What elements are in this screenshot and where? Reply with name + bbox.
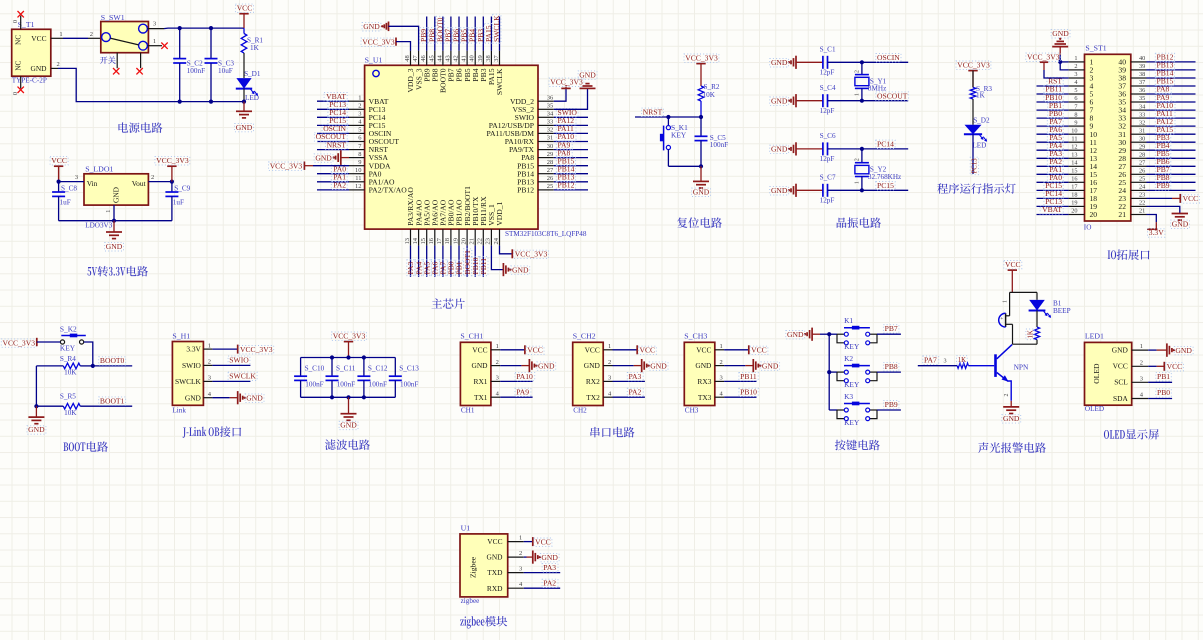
LED S_D1 <box>243 53 245 78</box>
net label PB3 <box>1147 141 1196 143</box>
ST1 pin 8 <box>1069 117 1085 119</box>
U1 pin 13 (PA3/RX/AO) <box>410 229 412 246</box>
svg-text:TYPE-C-2P: TYPE-C-2P <box>12 77 47 85</box>
svg-text:GND: GND <box>771 186 788 195</box>
svg-text:1: 1 <box>1074 55 1077 62</box>
svg-text:9: 9 <box>1074 119 1077 126</box>
svg-text:36: 36 <box>1139 87 1145 94</box>
net label PB4 <box>1147 149 1196 151</box>
svg-text:48: 48 <box>404 55 411 62</box>
U1 pin 16 (PA6/AO) <box>434 229 436 246</box>
svg-text:44: 44 <box>436 55 443 62</box>
U1 pin 30 (PA9/TX) <box>538 149 554 151</box>
svg-text:PA7: PA7 <box>924 355 937 364</box>
svg-text:1K: 1K <box>976 91 986 99</box>
svg-text:1: 1 <box>519 535 522 542</box>
SW1 bottom stub pins <box>116 53 118 68</box>
U1 pin 29 (PA8) <box>538 157 554 159</box>
svg-text:2: 2 <box>1074 63 1077 70</box>
svg-text:32: 32 <box>1139 119 1145 126</box>
junction <box>112 219 116 223</box>
net label BOOT0 / wire <box>80 365 93 367</box>
svg-text:S_LDO1: S_LDO1 <box>85 164 113 173</box>
power GND at VSSA pin 8 <box>341 157 349 159</box>
wire VCC node <box>1010 291 1037 293</box>
net label PB5 <box>1147 157 1196 159</box>
svg-text:3: 3 <box>1074 71 1077 78</box>
svg-text:PA2: PA2 <box>333 181 346 190</box>
net label PA0 <box>317 173 349 175</box>
junction <box>827 370 831 374</box>
svg-text:SWCLK: SWCLK <box>492 15 501 42</box>
svg-text:VCC: VCC <box>237 4 253 13</box>
svg-text:GND: GND <box>363 22 380 31</box>
svg-text:18: 18 <box>444 238 451 245</box>
net label PA5 <box>1037 141 1069 143</box>
svg-text:12pF: 12pF <box>820 197 835 205</box>
wire bottom rail <box>301 396 396 398</box>
svg-text:0: 0 <box>12 20 19 23</box>
svg-text:PB10: PB10 <box>740 388 757 397</box>
svg-text:S_H1: S_H1 <box>172 332 190 341</box>
U1 pin 37 (SWCLK) <box>499 51 501 66</box>
U1 pin 15 (PA5/AO) <box>426 229 428 246</box>
pushbutton K1 (KEY) <box>829 333 837 335</box>
power GND <box>348 397 350 413</box>
T1 pin 2 GND wire <box>51 67 58 69</box>
U1 pin 9 (VDDA) <box>349 165 365 167</box>
net label PA6 <box>434 246 436 277</box>
svg-text:VCC: VCC <box>1005 260 1021 269</box>
wire key to BOOT0 <box>84 342 93 366</box>
svg-text:37: 37 <box>493 55 500 62</box>
svg-text:S_C11: S_C11 <box>336 364 356 372</box>
LED1 pin 1 (GND) <box>1132 349 1149 351</box>
svg-text:BOOT0: BOOT0 <box>100 356 125 365</box>
svg-text:S_R5: S_R5 <box>60 392 76 400</box>
power GND at LED1 pin 1 <box>1148 349 1156 351</box>
svg-text:S_R4: S_R4 <box>60 355 76 363</box>
svg-text:43: 43 <box>444 55 451 62</box>
junction <box>827 332 831 336</box>
power GND at VSS_3 pin 47 <box>362 23 381 31</box>
title 晶振电路 <box>837 218 847 228</box>
U1 pin 47 (VSS_3) <box>418 51 420 66</box>
net label PC15 <box>1037 189 1069 191</box>
svg-text:VCC: VCC <box>31 34 46 43</box>
svg-text:LED: LED <box>245 94 259 102</box>
ST1 pin 9 <box>1069 125 1085 127</box>
connector S_CH2 <box>573 342 604 405</box>
svg-text:VCC: VCC <box>1113 362 1128 371</box>
svg-text:32.768KHz: 32.768KHz <box>868 173 901 181</box>
power VCC at CH1 pin 1 <box>500 349 525 351</box>
svg-text:VCC_3V3: VCC_3V3 <box>156 156 189 165</box>
svg-text:VCC: VCC <box>1183 194 1199 203</box>
svg-text:1: 1 <box>105 210 112 213</box>
svg-text:PB8: PB8 <box>885 362 898 371</box>
U1 pin 1 (VBAT) <box>349 100 365 102</box>
svg-text:S_C9: S_C9 <box>174 185 190 193</box>
net label PA15 <box>1147 133 1196 135</box>
net label PB11 <box>1037 93 1069 95</box>
svg-text:35: 35 <box>547 103 554 110</box>
net label PB7 / wire <box>877 333 901 335</box>
svg-text:GND: GND <box>695 361 712 370</box>
net label PB8 <box>1147 181 1196 183</box>
svg-text:PA10: PA10 <box>516 372 533 381</box>
svg-text:KEY: KEY <box>844 380 860 389</box>
svg-text:GND: GND <box>246 393 263 402</box>
svg-text:PA3: PA3 <box>543 563 556 572</box>
U1 pin 38 (PA15) <box>490 51 492 66</box>
U1 pin 40 (PB4) <box>474 51 476 66</box>
U1(zigbee) pin 3 (TXD) <box>508 572 524 574</box>
title 按键电路 <box>835 440 846 451</box>
svg-text:34: 34 <box>547 111 554 118</box>
svg-text:37: 37 <box>1139 79 1145 86</box>
junction <box>178 100 182 104</box>
svg-text:6: 6 <box>1074 95 1077 102</box>
title 复位电路 <box>677 217 687 228</box>
svg-text:28: 28 <box>1139 152 1145 159</box>
svg-text:PB12: PB12 <box>558 181 575 190</box>
net label BOOT1 <box>466 246 468 277</box>
svg-text:BOOT1: BOOT1 <box>100 396 125 405</box>
svg-text:4: 4 <box>608 390 612 397</box>
svg-text:2: 2 <box>1004 394 1010 397</box>
junction <box>1058 60 1062 64</box>
T1 pin 0 (top) <box>20 16 22 30</box>
power 3.3V at ST1 pin 21 <box>1147 215 1157 223</box>
net label VBAT <box>1037 214 1069 216</box>
connector S_T1 (TYPE-C-2P) <box>12 29 51 76</box>
svg-text:17: 17 <box>436 237 443 244</box>
title 串口电路 <box>590 427 599 438</box>
no-connect X <box>161 43 167 49</box>
net label PA0 <box>1037 181 1069 183</box>
U1 pin 26 (PB13) <box>538 181 554 183</box>
svg-text:S_C13: S_C13 <box>399 364 419 372</box>
svg-text:8MHz: 8MHz <box>868 85 886 93</box>
ST1 pin 24 <box>1131 189 1147 191</box>
svg-text:32: 32 <box>547 127 554 134</box>
capacitor S_C9 <box>171 182 173 192</box>
svg-text:VCC: VCC <box>751 346 767 355</box>
net label RST <box>1037 85 1069 87</box>
svg-text:4: 4 <box>1140 392 1144 399</box>
svg-text:PA2: PA2 <box>543 579 556 588</box>
ST1 pin 16 <box>1069 181 1085 183</box>
svg-text:PB11: PB11 <box>740 372 757 381</box>
svg-text:IO: IO <box>1084 223 1092 231</box>
net label PC15 <box>317 124 349 126</box>
net label PA3 <box>1037 157 1069 159</box>
svg-text:VCC_3V3: VCC_3V3 <box>550 78 583 87</box>
capacitor S_C7 12pF <box>796 189 823 191</box>
svg-text:LED1: LED1 <box>1085 332 1104 341</box>
svg-text:GND: GND <box>538 361 555 370</box>
junction <box>209 100 213 104</box>
svg-text:10: 10 <box>1071 127 1077 134</box>
svg-text:S_ST1: S_ST1 <box>1085 44 1106 53</box>
power GND for S_C7 <box>795 184 797 197</box>
svg-text:34: 34 <box>1139 103 1146 110</box>
net label PB9 / wire <box>877 409 901 411</box>
ST1 pin 34 <box>1131 109 1147 111</box>
svg-text:GND: GND <box>771 145 788 154</box>
svg-text:2: 2 <box>854 70 860 73</box>
net label PB1 <box>1037 109 1069 111</box>
connector S_ST1 (IO) <box>1085 54 1131 221</box>
svg-text:19: 19 <box>452 238 459 245</box>
junction <box>699 115 703 119</box>
power GND at VSS_2 pin 35 <box>554 88 588 109</box>
svg-text:2: 2 <box>208 359 211 366</box>
svg-text:VCC_3V3: VCC_3V3 <box>1027 53 1060 62</box>
U1 pin 32 (PA11/USB/DM) <box>538 132 554 134</box>
net label PC13 <box>1037 205 1069 207</box>
power GND at zigbee pin 2 <box>524 556 527 558</box>
svg-text:VCC: VCC <box>1167 362 1183 371</box>
ST1 pin 23 <box>1131 197 1147 199</box>
svg-text:NPN: NPN <box>1014 362 1029 371</box>
svg-text:11: 11 <box>1071 135 1077 142</box>
net label PA2 <box>1037 165 1069 167</box>
power VCC at ST1 pin 23 <box>1147 197 1173 199</box>
svg-text:U1: U1 <box>461 524 471 533</box>
CH3 pin 4 (TX3) <box>715 396 724 398</box>
svg-text:VCC: VCC <box>487 537 502 546</box>
ST1 pin 39 <box>1131 69 1147 71</box>
svg-text:20: 20 <box>1071 208 1077 215</box>
svg-text:1K: 1K <box>958 357 966 364</box>
CH1 pin 1 (VCC) <box>491 349 500 351</box>
ST1 pin 35 <box>1131 101 1147 103</box>
net label SWIO <box>554 116 588 118</box>
svg-text:14: 14 <box>412 237 419 244</box>
svg-text:1: 1 <box>854 181 860 184</box>
svg-text:VCC: VCC <box>585 345 600 354</box>
svg-text:2: 2 <box>519 550 522 557</box>
capacitor S_C2 <box>179 28 181 58</box>
capacitor S_C12 100nF <box>363 358 365 377</box>
title 主芯片 <box>432 298 443 308</box>
power VCC_3V3 at VDD_2 pin 36 <box>554 88 566 101</box>
U1 pin 19 (PB1/AO) <box>458 229 460 246</box>
svg-text:SDA: SDA <box>1113 394 1128 403</box>
svg-text:GND: GND <box>106 242 123 251</box>
svg-text:1: 1 <box>358 94 361 101</box>
net label SWIO / wire <box>212 364 250 366</box>
ST1 pin 30 <box>1131 141 1147 143</box>
svg-text:100nF: 100nF <box>710 141 728 149</box>
power VCC at CH3 pin 1 <box>724 349 749 351</box>
junction <box>34 404 38 408</box>
ST1 pin 29 <box>1131 149 1147 151</box>
svg-text:2: 2 <box>57 61 60 68</box>
wire bottom rail <box>59 220 172 222</box>
net label PA2 / wire <box>524 587 561 589</box>
svg-text:S_D1: S_D1 <box>244 70 261 78</box>
svg-text:23: 23 <box>485 238 492 245</box>
CH1 pin 3 (RX1) <box>491 380 500 382</box>
net label PA9 <box>554 149 588 151</box>
svg-text:PA9: PA9 <box>516 388 529 397</box>
net label BOOT0 <box>442 17 444 51</box>
net label PB13 <box>554 181 588 183</box>
svg-text:NRST: NRST <box>327 140 347 149</box>
junction <box>860 188 864 192</box>
svg-text:2: 2 <box>358 103 361 110</box>
svg-text:2: 2 <box>720 359 723 366</box>
wire VCC to Vin <box>58 166 60 181</box>
svg-text:39: 39 <box>1139 63 1145 70</box>
net label PA6 <box>1037 133 1069 135</box>
connector S_H1 (J-Link) <box>172 342 203 406</box>
LED1 pin 2 (VCC) <box>1132 365 1149 367</box>
power GND <box>113 221 115 232</box>
net label PB1 <box>458 246 460 277</box>
svg-text:PB7: PB7 <box>885 324 898 333</box>
U1 pin 27 (PB14) <box>538 173 554 175</box>
resistor S_R3 <box>972 71 974 88</box>
net label PB15 <box>554 165 588 167</box>
capacitor S_C3 <box>210 28 212 58</box>
net label PB6 <box>458 17 460 51</box>
svg-text:4: 4 <box>519 581 523 588</box>
svg-text:28: 28 <box>547 159 554 166</box>
ST1 pin 10 <box>1069 133 1085 135</box>
svg-text:S_SW1: S_SW1 <box>101 13 125 22</box>
power GND at VSS_1 pin 23 <box>491 246 503 270</box>
svg-text:11: 11 <box>355 175 361 182</box>
svg-text:12pF: 12pF <box>820 69 835 77</box>
power GND at ST1 pin 22 <box>1147 206 1180 213</box>
svg-text:2: 2 <box>854 158 860 161</box>
resistor S_R2 <box>698 86 704 101</box>
svg-text:1: 1 <box>1003 300 1009 303</box>
svg-text:SWCLK: SWCLK <box>495 68 504 95</box>
wire LDO GND pin <box>113 205 115 221</box>
svg-text:1: 1 <box>608 343 611 350</box>
svg-text:20: 20 <box>460 238 467 245</box>
svg-text:8: 8 <box>358 151 361 158</box>
svg-text:4: 4 <box>358 119 362 126</box>
junction <box>860 60 864 64</box>
net label PB10 <box>474 246 476 277</box>
svg-text:22: 22 <box>477 238 484 245</box>
U1 pin 8 (VSSA) <box>349 157 365 159</box>
net label PB0 / wire <box>1148 398 1172 400</box>
ST1 pin 22 <box>1131 205 1147 207</box>
net label PA4 <box>1037 149 1069 151</box>
U1 pin 3 (PC14) <box>349 116 365 118</box>
power GND <box>35 406 37 417</box>
U1 pin 21 (PB10/TX) <box>474 229 476 246</box>
svg-text:1K: 1K <box>1027 330 1034 338</box>
svg-text:1: 1 <box>208 342 211 349</box>
svg-text:10K: 10K <box>64 369 77 377</box>
svg-text:S_C1: S_C1 <box>820 46 836 54</box>
net label OSCOUT <box>876 92 909 100</box>
svg-text:39: 39 <box>477 55 484 62</box>
ST1 pin 11 <box>1069 141 1085 143</box>
power GND at ST1 pins 1,2 <box>1051 30 1070 38</box>
svg-text:24: 24 <box>493 237 500 244</box>
U1 pin 2 (PC13) <box>349 108 365 110</box>
power GND for S_C4 <box>795 94 797 107</box>
ST1 pin 28 <box>1131 157 1147 159</box>
svg-text:PA2/TX/AO: PA2/TX/AO <box>369 186 408 195</box>
svg-text:3: 3 <box>208 375 211 382</box>
net label PA15 <box>490 17 492 51</box>
ST1 pin 1 <box>1069 61 1085 63</box>
junction <box>860 99 864 103</box>
ST1 pin 36 <box>1131 93 1147 95</box>
capacitor S_C1 12pF <box>796 61 823 63</box>
CH2 pin 1 (VCC) <box>603 349 612 351</box>
svg-text:SWIO: SWIO <box>229 356 249 365</box>
svg-text:RX3: RX3 <box>697 377 711 386</box>
svg-text:23: 23 <box>1139 192 1145 199</box>
svg-text:27: 27 <box>1139 160 1145 167</box>
ST1 pin 3 <box>1069 77 1085 79</box>
svg-text:S_K2: S_K2 <box>60 324 77 333</box>
svg-text:PB11: PB11 <box>479 258 488 275</box>
ST1 pin 32 <box>1131 125 1147 127</box>
svg-text:3: 3 <box>944 358 947 365</box>
svg-text:1: 1 <box>854 93 860 96</box>
junction <box>209 26 213 30</box>
svg-text:2: 2 <box>151 174 154 181</box>
wire left rail <box>36 365 63 367</box>
svg-text:GND: GND <box>30 64 47 73</box>
svg-text:31: 31 <box>547 135 554 142</box>
svg-text:S_C10: S_C10 <box>305 364 325 372</box>
svg-text:PB12: PB12 <box>517 186 534 195</box>
svg-text:12: 12 <box>355 183 362 190</box>
svg-text:25: 25 <box>1139 176 1145 183</box>
ST1 pin 5 <box>1069 93 1085 95</box>
U1 pin 20 (PB2/BOOT1) <box>466 229 468 246</box>
net label NRST <box>317 149 349 151</box>
svg-text:GND: GND <box>693 188 710 197</box>
net label PA7 <box>923 356 939 364</box>
U1 pin 35 (VSS_2) <box>538 108 554 110</box>
net label PB7 <box>1147 173 1196 175</box>
net label PA2 / wire <box>613 396 645 398</box>
junction <box>699 164 703 168</box>
net label PB4 <box>474 17 476 51</box>
svg-text:RXD: RXD <box>487 584 503 593</box>
power VCC <box>239 13 248 15</box>
net label PA5 <box>426 246 428 277</box>
svg-text:VDD_1: VDD_1 <box>495 201 504 225</box>
svg-text:16: 16 <box>428 237 435 244</box>
net label PB1 / wire <box>1148 381 1172 383</box>
svg-text:SWCLK: SWCLK <box>229 372 256 381</box>
power VCC_3V3 <box>696 63 705 65</box>
SW1 pin 3 wire to VCC rail <box>148 28 165 30</box>
svg-text:7: 7 <box>358 143 362 150</box>
LED1 pin 4 (SDA) <box>1132 398 1149 400</box>
junction <box>346 355 350 359</box>
net label PB14 <box>554 173 588 175</box>
svg-text:GND: GND <box>486 553 503 562</box>
svg-text:S_U1: S_U1 <box>365 55 383 64</box>
power GND at CH2 pin 2 <box>613 365 634 367</box>
